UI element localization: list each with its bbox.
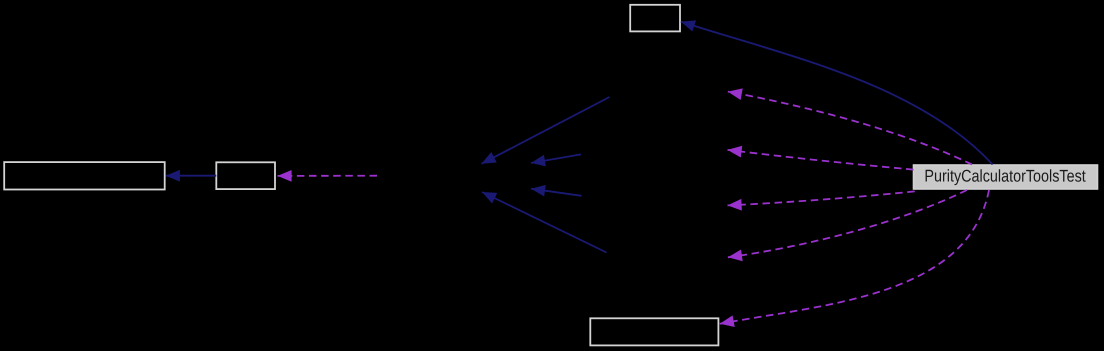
node bottom box bbox=[590, 318, 718, 345]
node PurityCalculatorToolsTest bbox=[914, 165, 1098, 189]
edge blue short upper bbox=[531, 154, 581, 163]
edge purple dashed fan 3 bbox=[728, 191, 915, 205]
edge purple dashed fan 2 bbox=[728, 150, 914, 170]
edge blue short lower bbox=[531, 189, 582, 196]
edge blue diagonal lower to mid-left point bbox=[482, 192, 607, 253]
edge purple dashed curve to bottom box bbox=[720, 190, 989, 324]
edge blue diagonal upper to mid-left point bbox=[482, 97, 610, 164]
edge purple dashed to left box B bbox=[278, 175, 378, 177]
node top box bbox=[630, 5, 680, 32]
edge blue B to A bbox=[166, 175, 217, 177]
node left box B bbox=[216, 162, 275, 189]
edge blue curve PurityCalculatorToolsTest to top box bbox=[681, 22, 993, 165]
node left box A bbox=[4, 162, 165, 189]
edge purple dashed fan 4 bbox=[728, 190, 967, 257]
svg-text:PurityCalculatorToolsTest: PurityCalculatorToolsTest bbox=[924, 167, 1086, 186]
edge purple dashed fan 1 (top) bbox=[728, 92, 972, 165]
